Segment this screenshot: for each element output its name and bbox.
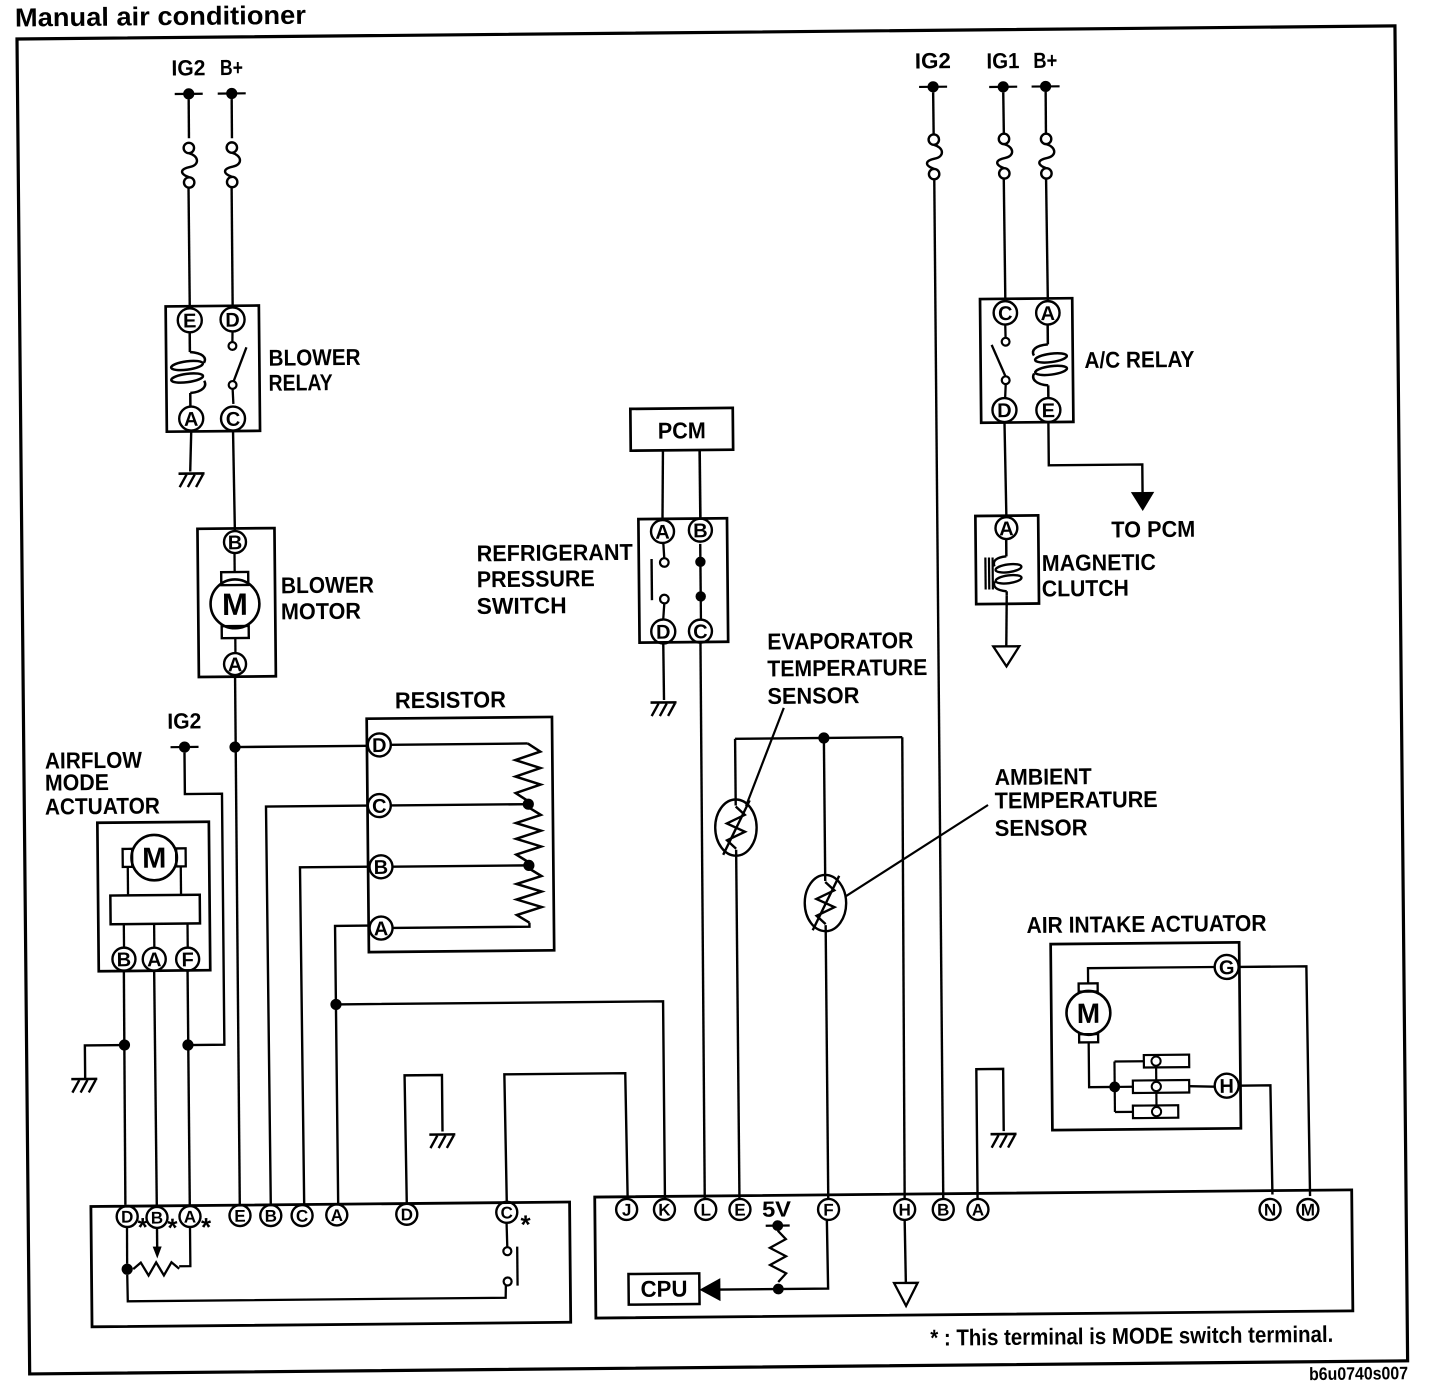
wire actuator B to connector pin D: [123, 971, 126, 1205]
svg-text:A: A: [184, 1208, 196, 1227]
wire blower relay C to blower motor B: [233, 431, 235, 531]
airflow actuator wiper block: [110, 895, 200, 925]
svg-text:A: A: [655, 522, 670, 544]
wire PCM to pressure switch B: [698, 451, 701, 519]
blower motor box: [197, 528, 275, 677]
svg-text:A: A: [374, 918, 389, 940]
wire resistor bottom to pin A: [393, 923, 530, 928]
wire block to pin A: [153, 924, 156, 947]
wire fuse to blower relay pin E: [189, 187, 190, 307]
svg-text:C: C: [693, 621, 708, 643]
power terminal IG2 (middle): [167, 708, 201, 752]
wire pin B to tap: [392, 865, 528, 866]
asterisk (MODE switch terminal): [520, 1209, 531, 1239]
label AMBIENT TEMPERATURE SENSOR: [994, 762, 1158, 841]
pin A: [143, 948, 166, 972]
wire block to pin F: [186, 924, 189, 947]
label AIR INTAKE ACTUATOR: [1026, 910, 1267, 938]
wire pressure switch D to ground: [662, 643, 665, 699]
svg-text:M: M: [1077, 998, 1101, 1029]
connector pin M: [1297, 1199, 1318, 1220]
svg-text:ACTUATOR: ACTUATOR: [45, 792, 161, 819]
fuse (B+ left): [225, 142, 240, 187]
svg-text:D: D: [997, 400, 1012, 422]
blower motor M: [210, 553, 260, 653]
pin C: [221, 406, 245, 430]
svg-text:MODE: MODE: [45, 769, 109, 796]
pin H: [1215, 1074, 1239, 1098]
svg-text:TEMPERATURE: TEMPERATURE: [767, 654, 927, 682]
svg-text:A/C RELAY: A/C RELAY: [1084, 346, 1194, 373]
svg-text:TO PCM: TO PCM: [1111, 516, 1195, 543]
connector pin A: [179, 1206, 200, 1227]
svg-text:IG2: IG2: [171, 55, 205, 80]
ground (magnetic clutch, arrow): [993, 646, 1019, 666]
junction (tap C): [523, 799, 534, 810]
magnetic clutch coil: [985, 539, 1022, 596]
magnetic clutch box: [975, 515, 1039, 604]
wire IG1 to fuse: [1002, 92, 1005, 133]
svg-text:G: G: [1219, 957, 1235, 979]
svg-text:E: E: [183, 310, 197, 332]
wire pin G to motor: [1088, 967, 1215, 983]
svg-text:CPU: CPU: [640, 1275, 687, 1301]
wire pin H to connector pin N: [1239, 1085, 1273, 1195]
svg-text:* : This terminal is MODE swit: * : This terminal is MODE switch termina…: [930, 1321, 1333, 1351]
svg-text:SENSOR: SENSOR: [995, 814, 1089, 841]
pin D: [651, 619, 675, 643]
svg-text:CLUTCH: CLUTCH: [1042, 575, 1129, 602]
svg-text:J: J: [622, 1201, 632, 1220]
5V supply terminal: [762, 1196, 792, 1231]
wire magnetic clutch to ground: [1006, 595, 1007, 645]
resistor box: [367, 717, 555, 952]
svg-text:H: H: [898, 1200, 910, 1219]
svg-text:C: C: [226, 409, 241, 431]
svg-text:BLOWER: BLOWER: [281, 571, 375, 598]
wire pin F to CPU: [719, 1220, 828, 1290]
CPU unit connector box: [595, 1190, 1353, 1318]
pin B: [224, 531, 246, 554]
svg-text:BLOWER: BLOWER: [268, 344, 361, 371]
title text: [15, 0, 306, 33]
label PCM: [658, 417, 706, 443]
label MAGNETIC CLUTCH: [1042, 549, 1157, 602]
pressure switch contact (left, open): [651, 543, 669, 619]
svg-text:B: B: [228, 532, 243, 554]
svg-text:A: A: [331, 1206, 343, 1225]
svg-text:C: C: [296, 1207, 308, 1226]
connector pin H: [894, 1199, 915, 1220]
power terminal IG1: [986, 48, 1019, 92]
svg-text:B: B: [374, 857, 389, 879]
connector pin E: [729, 1199, 750, 1220]
svg-text:B: B: [265, 1207, 277, 1226]
svg-text:C: C: [998, 303, 1013, 325]
svg-text:B+: B+: [220, 55, 243, 80]
connector pin L: [695, 1199, 716, 1220]
air intake actuator box: [1051, 942, 1241, 1130]
wire resistor A to connector pin A: [335, 926, 372, 1205]
connector pin K: [654, 1199, 675, 1220]
label BLOWER MOTOR: [281, 571, 375, 624]
connector pin C: [291, 1205, 312, 1226]
blower relay box: [166, 306, 260, 432]
svg-text:IG1: IG1: [986, 48, 1019, 73]
svg-text:SWITCH: SWITCH: [477, 592, 567, 619]
wire fuse to blower relay pin D: [232, 187, 233, 307]
connector pin E: [229, 1205, 250, 1226]
wire actuator F to connector pin A: [188, 971, 190, 1206]
air intake motor M: [1066, 983, 1110, 1042]
fuse (IG2 right): [927, 134, 942, 179]
wire connector D to ground: [405, 1075, 444, 1204]
svg-text:D: D: [225, 310, 240, 332]
junction (air intake common): [1109, 1081, 1120, 1092]
wire actuator A to connector pin B: [154, 971, 157, 1207]
svg-text:M: M: [142, 843, 166, 875]
wire blower motor A to connector pin E: [235, 675, 240, 1205]
wire resistor to pin H: [1189, 1085, 1215, 1088]
wire A/C relay D to magnetic clutch A: [1004, 423, 1006, 517]
ground (airflow actuator B): [71, 1079, 97, 1093]
svg-text:*: *: [201, 1212, 212, 1242]
asterisk (MODE switch terminal): [201, 1212, 212, 1242]
svg-text:PCM: PCM: [658, 417, 706, 443]
pin E: [178, 308, 202, 332]
pin B: [112, 948, 135, 972]
wire resistor C to connector pin B: [266, 806, 372, 1205]
svg-text:*: *: [138, 1212, 149, 1242]
fuse (IG2 left): [182, 143, 197, 188]
svg-text:K: K: [658, 1201, 671, 1220]
arrow into CPU: [699, 1278, 720, 1301]
svg-text:IG2: IG2: [167, 708, 201, 733]
wire pin H to ground arrow: [905, 1220, 906, 1283]
junction (ambient tap): [818, 732, 829, 743]
blower relay switch: [228, 332, 247, 404]
pin D: [992, 398, 1016, 422]
pressure switch contact (right, closed): [695, 544, 706, 619]
asterisk (MODE switch terminal): [138, 1212, 149, 1242]
wire IG2 to fuse: [932, 92, 935, 134]
svg-text:REFRIGERANT: REFRIGERANT: [477, 539, 633, 566]
wire potentiometer to MODE switch: [127, 1271, 506, 1301]
label AIRFLOW MODE ACTUATOR: [44, 746, 160, 819]
label TO PCM: [1111, 516, 1195, 543]
svg-text:*: *: [167, 1213, 178, 1243]
wire pin G to connector pin M: [1239, 966, 1310, 1196]
fuse (B+ right): [1039, 134, 1054, 179]
resistor element 3: [516, 868, 542, 923]
sensor loop top wire: [735, 737, 902, 739]
part number text: [1309, 1363, 1408, 1384]
connector pin A: [967, 1199, 988, 1220]
connector pin B: [146, 1207, 167, 1228]
pin C: [368, 794, 391, 818]
asterisk (MODE switch terminal): [167, 1213, 178, 1243]
wire junction to connector pin K: [336, 1001, 665, 1202]
svg-text:AIR INTAKE ACTUATOR: AIR INTAKE ACTUATOR: [1026, 910, 1267, 938]
connector pin C: [496, 1202, 517, 1223]
junction (tap B): [523, 860, 534, 871]
svg-text:A: A: [1041, 303, 1056, 325]
svg-text:SENSOR: SENSOR: [767, 682, 860, 709]
pin E: [1036, 398, 1060, 422]
label A/C RELAY: [1084, 346, 1194, 373]
power terminal IG2 (top right): [915, 48, 951, 92]
pin A: [369, 916, 392, 940]
pin A: [651, 520, 674, 544]
evaporator temperature sensor: [714, 739, 760, 1200]
svg-text:B+: B+: [1033, 48, 1057, 73]
ground stub wire: [85, 1045, 125, 1079]
svg-text:B: B: [693, 520, 708, 542]
pin A: [1036, 301, 1060, 325]
svg-text:H: H: [1219, 1076, 1234, 1098]
connector pin D: [117, 1206, 138, 1227]
svg-text:B: B: [151, 1208, 163, 1227]
junction (B wire / ground stub): [119, 1039, 130, 1050]
wires junction to resistors: [1114, 1061, 1144, 1112]
wire motor to junction: [1089, 1042, 1115, 1087]
connector pin A: [326, 1204, 347, 1225]
connector pin B: [260, 1205, 281, 1226]
svg-text:D: D: [656, 622, 671, 644]
svg-text:N: N: [1264, 1201, 1276, 1220]
PCM box: [630, 408, 733, 451]
ground (air intake A): [991, 1134, 1017, 1148]
wire pin C to tap: [391, 804, 528, 805]
ground (connector D): [429, 1134, 455, 1148]
pin B: [689, 519, 712, 543]
svg-text:F: F: [823, 1201, 834, 1220]
connector pin D: [396, 1204, 417, 1225]
svg-text:D: D: [372, 735, 387, 757]
power terminal IG2 (top left): [171, 55, 205, 99]
wire IG2 to airflow actuator F net: [184, 752, 224, 1045]
pin C: [994, 301, 1018, 325]
power terminal B+ (top right): [1031, 48, 1059, 92]
pin G: [1215, 955, 1239, 979]
ground (blower relay): [179, 473, 205, 487]
svg-text:E: E: [234, 1207, 246, 1226]
svg-text:5V: 5V: [762, 1196, 792, 1221]
ground (pressure switch): [651, 702, 677, 716]
svg-text:MAGNETIC: MAGNETIC: [1042, 549, 1156, 576]
wire IG1 to A/C relay pin C: [1004, 180, 1006, 302]
svg-text:RELAY: RELAY: [268, 369, 332, 396]
label REFRIGERANT PRESSURE SWITCH: [476, 539, 633, 619]
pin A: [224, 653, 246, 676]
junction (motor wire / resistor D): [229, 741, 240, 752]
wire blower relay A to ground: [190, 431, 192, 471]
svg-text:PRESSURE: PRESSURE: [477, 565, 595, 592]
svg-text:L: L: [700, 1200, 711, 1219]
svg-text:b6u0740s007: b6u0740s007: [1309, 1363, 1408, 1384]
svg-text:TEMPERATURE: TEMPERATURE: [995, 786, 1158, 814]
A/C relay coil: [1033, 325, 1068, 399]
note text: [930, 1321, 1333, 1351]
MODE switch: [503, 1223, 517, 1286]
svg-text:E: E: [734, 1201, 746, 1220]
wire B+ to A/C relay pin A: [1046, 179, 1048, 301]
wire motor right brush to block: [180, 866, 183, 894]
wire IG2 to fuse: [187, 99, 190, 138]
airflow mode actuator box: [97, 822, 210, 972]
wire pin D to resistor top: [391, 743, 528, 744]
wire connector pin A hook to ground: [976, 1069, 1004, 1199]
connector pin N: [1259, 1199, 1280, 1220]
connector pin F: [818, 1199, 839, 1220]
pull-up resistor (5V): [770, 1231, 786, 1283]
svg-text:D: D: [401, 1205, 413, 1224]
svg-text:A: A: [999, 518, 1014, 540]
connector pin J: [616, 1199, 637, 1220]
svg-text:EVAPORATOR: EVAPORATOR: [767, 627, 914, 654]
svg-text:D: D: [121, 1208, 133, 1227]
wire junction to resistor pin D: [235, 746, 368, 747]
wire B+ to fuse: [230, 99, 233, 138]
resistor element 1: [515, 743, 541, 801]
pin D: [220, 307, 244, 331]
svg-text:M: M: [222, 587, 248, 622]
svg-text:A: A: [184, 409, 199, 431]
A/C relay switch: [991, 325, 1010, 398]
wire A/C relay E to PCM: [1048, 422, 1142, 493]
pointer line (ambient sensor): [845, 805, 989, 896]
svg-text:*: *: [520, 1209, 531, 1239]
svg-text:A: A: [228, 654, 243, 676]
resistor element 2: [516, 807, 542, 862]
svg-text:C: C: [372, 796, 387, 818]
junction (resistor A wire / K branch): [330, 999, 341, 1010]
svg-text:B: B: [937, 1201, 949, 1220]
svg-text:C: C: [501, 1203, 513, 1222]
wire motor left brush to block: [127, 867, 130, 895]
svg-text:M: M: [1301, 1201, 1315, 1220]
ambient temperature sensor: [803, 738, 849, 1199]
pin B: [369, 855, 392, 879]
pin F: [176, 948, 199, 972]
svg-text:E: E: [1042, 400, 1056, 422]
wire PCM to pressure switch A: [662, 451, 664, 520]
pin D: [368, 733, 391, 757]
wire block to pin B: [123, 924, 126, 947]
pin A: [995, 517, 1017, 540]
pin C: [689, 620, 712, 644]
label CPU: [640, 1275, 687, 1301]
svg-text:MOTOR: MOTOR: [281, 598, 362, 625]
svg-text:RESISTOR: RESISTOR: [395, 686, 507, 713]
CPU box: [628, 1273, 699, 1304]
pin A: [179, 406, 203, 430]
power terminal B+ (top left): [217, 55, 245, 99]
ground (CPU H, arrow): [894, 1283, 918, 1306]
label RESISTOR: [395, 686, 507, 713]
refrigerant pressure switch box: [638, 518, 728, 642]
fan speed potentiometer: [121, 1227, 190, 1276]
wire IG2 to connector pin B (long): [934, 180, 944, 1199]
mode/fan control connector box: [91, 1202, 571, 1327]
wire pressure switch C to connector pin L: [699, 642, 705, 1198]
wire B+ to fuse: [1044, 92, 1047, 134]
wire resistor B to connector pin C: [300, 867, 373, 1205]
svg-text:Manual air conditioner: Manual air conditioner: [15, 0, 306, 33]
blower relay coil: [170, 332, 205, 406]
svg-text:F: F: [181, 949, 193, 971]
label EVAPORATOR TEMPERATURE SENSOR: [767, 627, 928, 709]
arrow TO PCM: [1131, 492, 1155, 511]
label BLOWER RELAY: [268, 344, 361, 396]
svg-text:IG2: IG2: [915, 48, 951, 73]
wire MODE switch C to CPU pin J: [504, 1073, 627, 1202]
connector pin B: [933, 1199, 954, 1220]
wire loop to connector pin H: [900, 737, 906, 1199]
junction (F wire / IG2 feed): [182, 1039, 193, 1050]
fuse (IG1): [997, 134, 1012, 179]
air intake position resistors: [1132, 1055, 1189, 1119]
svg-text:A: A: [147, 949, 162, 971]
A/C relay box: [980, 298, 1073, 423]
junction (5V / F line): [773, 1284, 784, 1295]
svg-text:A: A: [972, 1200, 984, 1219]
airflow actuator motor M: [122, 835, 185, 881]
pointer line (evaporator sensor): [745, 708, 785, 806]
svg-text:B: B: [117, 949, 132, 971]
